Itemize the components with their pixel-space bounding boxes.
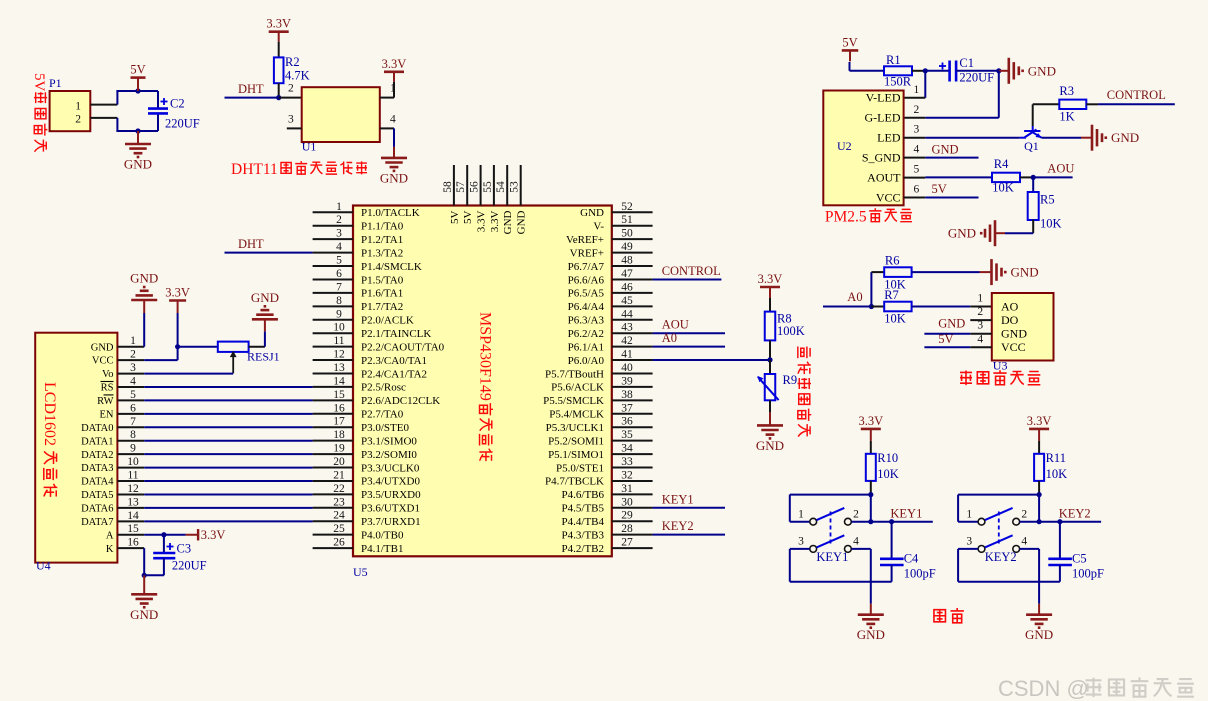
svg-text:46: 46 bbox=[621, 281, 633, 293]
svg-text:10K: 10K bbox=[877, 467, 899, 481]
U5 pin 27 P4.2/TB2 bbox=[612, 547, 653, 549]
U5 pin 16 P2.7/TA0 bbox=[313, 413, 353, 415]
svg-text:51: 51 bbox=[621, 214, 633, 226]
U3 pin 2 DO bbox=[970, 319, 992, 321]
svg-text:6: 6 bbox=[914, 184, 920, 196]
svg-text:26: 26 bbox=[333, 537, 345, 549]
U5 pin 21 P3.4/UTXD0 bbox=[313, 480, 353, 482]
svg-text:P1.4/SMCLK: P1.4/SMCLK bbox=[361, 261, 422, 273]
U4 pin 7 DATA0 bbox=[117, 426, 144, 428]
svg-text:45: 45 bbox=[621, 295, 633, 307]
svg-text:V-LED: V-LED bbox=[866, 91, 901, 105]
svg-text:GND: GND bbox=[130, 607, 158, 622]
svg-text:10K: 10K bbox=[884, 312, 906, 326]
svg-text:LED: LED bbox=[877, 131, 901, 145]
resistor R2 bbox=[274, 57, 284, 83]
U5 pin 8 P1.7/TA2 bbox=[313, 305, 353, 307]
wire U4 pin16 K down bbox=[143, 548, 145, 575]
svg-text:7: 7 bbox=[130, 416, 136, 428]
wire net KEY1 at U5 pin 30 bbox=[653, 507, 725, 509]
svg-text:100pF: 100pF bbox=[1072, 567, 1104, 581]
svg-text:GND: GND bbox=[91, 342, 114, 353]
ground below R9 bbox=[769, 412, 771, 425]
svg-text:GND: GND bbox=[580, 207, 604, 219]
svg-text:P1: P1 bbox=[49, 76, 62, 90]
svg-text:16: 16 bbox=[333, 402, 345, 414]
svg-text:U5: U5 bbox=[353, 565, 368, 579]
svg-text:DATA5: DATA5 bbox=[81, 490, 113, 501]
capacitor C2 bbox=[148, 107, 168, 110]
wire U2 pin6 VCC net bbox=[925, 197, 978, 199]
ground right of Q1 (sideways) bbox=[1081, 137, 1092, 139]
svg-text:P3.3/UCLK0: P3.3/UCLK0 bbox=[361, 462, 420, 474]
svg-text:P5.0/STE1: P5.0/STE1 bbox=[556, 462, 604, 474]
wire R4 to AOU node bbox=[1020, 176, 1033, 178]
power 3.3V above R11 bbox=[1029, 428, 1049, 431]
wire net CONTROL at U5 pin 47 bbox=[653, 278, 722, 280]
svg-text:GND: GND bbox=[124, 157, 152, 172]
wire KEY1 to ground bbox=[870, 582, 872, 604]
ground right of C1 (sideways) bbox=[999, 70, 1009, 72]
svg-text:P1.7/TA2: P1.7/TA2 bbox=[361, 301, 403, 313]
U5 pin 46 P6.5/A5 bbox=[612, 292, 653, 294]
svg-text:EN: EN bbox=[100, 409, 114, 420]
U4 pin 15 A bbox=[117, 534, 144, 536]
svg-text:DHT11: DHT11 bbox=[231, 161, 278, 178]
potentiometer RESJ1 bbox=[218, 342, 249, 352]
svg-text:GND: GND bbox=[1001, 327, 1027, 341]
connector P1 label 5V dianyuan jiekou (vertical red) bbox=[31, 73, 47, 152]
resistor R1 bbox=[884, 66, 912, 75]
svg-text:44: 44 bbox=[621, 308, 633, 320]
node C3 top junction bbox=[161, 532, 166, 537]
svg-text:GND: GND bbox=[857, 627, 885, 642]
U5 top pin 56 3.3V bbox=[480, 165, 482, 206]
svg-text:GND: GND bbox=[948, 226, 976, 241]
svg-text:6: 6 bbox=[336, 268, 342, 280]
svg-text:18: 18 bbox=[333, 429, 345, 441]
svg-text:29: 29 bbox=[621, 510, 633, 522]
U5 pin 50 VeREF+ bbox=[612, 238, 653, 240]
svg-text:GND: GND bbox=[130, 271, 158, 286]
wire R5 to ground rail bbox=[1032, 220, 1034, 234]
ground left of R5 (sideways) bbox=[995, 232, 1005, 234]
svg-text:14: 14 bbox=[127, 510, 139, 522]
power 3.3V above R10 bbox=[861, 428, 881, 431]
U4 pin 11 DATA4 bbox=[117, 480, 144, 482]
svg-text:R11: R11 bbox=[1046, 451, 1066, 465]
U4 pin 10 DATA3 bbox=[117, 467, 144, 469]
U5 pin 41 P6.0/A0 bbox=[612, 359, 653, 361]
svg-text:CONTROL: CONTROL bbox=[1107, 88, 1166, 102]
svg-text:P1.1/TA0: P1.1/TA0 bbox=[361, 221, 404, 233]
svg-text:P4.4/TB4: P4.4/TB4 bbox=[562, 516, 605, 528]
svg-text:220UF: 220UF bbox=[172, 559, 207, 573]
svg-text:DATA4: DATA4 bbox=[81, 477, 114, 488]
svg-text:C2: C2 bbox=[170, 97, 185, 111]
svg-text:3: 3 bbox=[130, 362, 136, 374]
svg-text:3.3V: 3.3V bbox=[476, 210, 488, 232]
svg-text:VREF+: VREF+ bbox=[570, 247, 604, 259]
wire DHT to U5 pin4 bbox=[225, 252, 313, 254]
node AOU junction bbox=[1031, 175, 1036, 180]
svg-text:P6.7/A7: P6.7/A7 bbox=[568, 261, 605, 273]
svg-text:1: 1 bbox=[75, 100, 81, 112]
U5 top pin 58 5V bbox=[453, 165, 455, 206]
U4 pin 3 Vo bbox=[117, 373, 144, 375]
resistor R8 bbox=[765, 312, 776, 341]
U5 pin 13 P2.4/CA1/TA2 bbox=[313, 372, 353, 374]
wire U3 pin4 5V net bbox=[924, 346, 970, 348]
svg-text:CONTROL: CONTROL bbox=[662, 264, 721, 278]
svg-text:C4: C4 bbox=[904, 552, 919, 566]
svg-text:13: 13 bbox=[127, 496, 139, 508]
sensor U3 body bbox=[992, 293, 1054, 361]
U5 pin 1 P1.0/TACLK bbox=[313, 211, 353, 213]
U5 top pin 55 3.3V bbox=[493, 165, 495, 206]
svg-text:A0: A0 bbox=[662, 331, 677, 345]
U5 pin 9 P2.0/ACLK bbox=[313, 319, 353, 321]
svg-text:100pF: 100pF bbox=[904, 567, 936, 581]
svg-text:P4.0/TB0: P4.0/TB0 bbox=[361, 529, 404, 541]
wire P1 to C2 loop bbox=[116, 91, 118, 105]
wire net A0 at U5 pin 42 bbox=[653, 346, 725, 348]
svg-text:10: 10 bbox=[127, 456, 139, 468]
resistor R5 bbox=[1032, 177, 1034, 192]
wire node to C1 bbox=[925, 70, 949, 72]
U3 pin 4 VCC bbox=[970, 346, 992, 348]
svg-text:KEY1: KEY1 bbox=[890, 506, 922, 520]
wire AOU net bbox=[1033, 176, 1072, 178]
U4 pin 5 RW bbox=[117, 399, 144, 401]
svg-text:2: 2 bbox=[1021, 509, 1027, 521]
svg-text:10: 10 bbox=[333, 322, 345, 334]
svg-text:GND: GND bbox=[932, 143, 959, 157]
U4 pin 14 DATA7 bbox=[117, 520, 144, 522]
svg-text:3: 3 bbox=[966, 536, 972, 548]
svg-text:LCD1602: LCD1602 bbox=[41, 382, 58, 446]
svg-text:DHT: DHT bbox=[238, 237, 264, 251]
svg-text:PM2.5: PM2.5 bbox=[825, 209, 867, 226]
svg-text:22: 22 bbox=[333, 483, 345, 495]
wire U1 pin4 to ground bbox=[393, 128, 395, 147]
wire to R8 bbox=[769, 298, 771, 312]
svg-text:20: 20 bbox=[333, 456, 345, 468]
svg-text:DATA6: DATA6 bbox=[81, 503, 113, 514]
svg-text:U4: U4 bbox=[36, 559, 51, 573]
svg-text:2: 2 bbox=[914, 104, 920, 116]
transistor Q1 bbox=[1020, 137, 1026, 139]
svg-text:P5.1/SIMO1: P5.1/SIMO1 bbox=[548, 449, 604, 461]
U5 pin 35 P5.2/SOMI1 bbox=[612, 440, 653, 442]
node KEY1 top junction bbox=[868, 492, 873, 497]
svg-text:DHT: DHT bbox=[238, 82, 264, 96]
svg-text:6: 6 bbox=[130, 402, 136, 414]
svg-text:19: 19 bbox=[333, 443, 345, 455]
svg-text:RS: RS bbox=[101, 383, 114, 394]
power 5V bbox=[131, 76, 146, 79]
svg-text:31: 31 bbox=[621, 483, 633, 495]
svg-text:GND: GND bbox=[1028, 63, 1056, 78]
wire R8 to node bbox=[769, 340, 771, 360]
svg-text:1: 1 bbox=[966, 509, 972, 521]
svg-text:GND: GND bbox=[516, 210, 528, 234]
svg-text:P3.0/STE0: P3.0/STE0 bbox=[361, 422, 409, 434]
U4 pin 12 DATA5 bbox=[117, 493, 144, 495]
svg-text:VeREF+: VeREF+ bbox=[566, 234, 604, 246]
U5 pin 24 P3.7/URXD1 bbox=[313, 520, 353, 522]
svg-text:53: 53 bbox=[509, 181, 521, 193]
svg-text:4: 4 bbox=[336, 241, 342, 253]
svg-text:RESJ1: RESJ1 bbox=[247, 350, 280, 364]
svg-text:11: 11 bbox=[127, 470, 138, 482]
svg-text:DO: DO bbox=[1001, 313, 1019, 327]
U5 pin 20 P3.3/UCLK0 bbox=[313, 467, 353, 469]
svg-text:10K: 10K bbox=[992, 181, 1014, 195]
svg-text:R7: R7 bbox=[884, 288, 899, 302]
svg-text:P1.3/TA2: P1.3/TA2 bbox=[361, 247, 403, 259]
ground below C2 bbox=[137, 131, 139, 144]
label smoke sensor (red) bbox=[960, 371, 972, 386]
svg-text:Vo: Vo bbox=[102, 369, 113, 380]
capacitor C4 bbox=[891, 522, 893, 559]
wire C1 to node2 bbox=[956, 70, 999, 72]
U2 pin 6 VCC bbox=[904, 197, 926, 199]
U4 pin 4 RS bbox=[117, 386, 144, 388]
svg-text:R3: R3 bbox=[1059, 84, 1074, 98]
power 3.3V above R2 bbox=[269, 30, 289, 33]
U5 pin 19 P3.2/SOMI0 bbox=[313, 453, 353, 455]
wire U5 pin41 to light sensor node bbox=[653, 359, 770, 361]
svg-text:10K: 10K bbox=[1046, 467, 1068, 481]
ground below LCD bbox=[143, 575, 145, 594]
svg-text:DATA2: DATA2 bbox=[81, 450, 113, 461]
svg-text:P3.6/UTXD1: P3.6/UTXD1 bbox=[361, 503, 420, 515]
svg-text:P1.2/TA1: P1.2/TA1 bbox=[361, 234, 403, 246]
svg-text:P6.1/A1: P6.1/A1 bbox=[568, 341, 604, 353]
svg-text:24: 24 bbox=[333, 510, 345, 522]
wire A0 net bbox=[823, 306, 871, 308]
svg-text:A: A bbox=[106, 530, 114, 541]
sensor U1 body bbox=[302, 87, 380, 142]
U2 pin 4 S_GND bbox=[904, 157, 926, 159]
RESJ1 wiper arrow bbox=[232, 353, 234, 373]
node C3 bottom junction bbox=[142, 573, 147, 578]
U4 pin 8 DATA1 bbox=[117, 440, 144, 442]
wire node to U2 pin1 bbox=[924, 71, 926, 98]
ground above U4 pin1 (flipped) bbox=[143, 313, 145, 347]
power 3.3V sideways at backlight bbox=[186, 534, 199, 536]
svg-text:GND: GND bbox=[380, 170, 408, 185]
svg-text:P5.2/SOMI1: P5.2/SOMI1 bbox=[548, 435, 604, 447]
node 5V junction bbox=[135, 88, 140, 93]
svg-text:DATA7: DATA7 bbox=[81, 517, 113, 528]
U1 pin 1 stub bbox=[380, 97, 394, 99]
wire U2 pin5 AOUT to R4 bbox=[925, 176, 992, 178]
svg-text:G-LED: G-LED bbox=[865, 111, 901, 125]
svg-text:17: 17 bbox=[333, 416, 345, 428]
svg-text:P3.5/URXD0: P3.5/URXD0 bbox=[361, 489, 421, 501]
svg-text:P5.7/TBoutH: P5.7/TBoutH bbox=[545, 368, 604, 380]
svg-text:CSDN @: CSDN @ bbox=[998, 676, 1089, 701]
svg-text:38: 38 bbox=[621, 389, 633, 401]
U5 pin 2 P1.1/TA0 bbox=[313, 225, 353, 227]
MCU U5 body bbox=[353, 206, 612, 557]
svg-text:37: 37 bbox=[621, 402, 633, 414]
svg-text:42: 42 bbox=[621, 335, 633, 347]
svg-text:2: 2 bbox=[336, 214, 342, 226]
svg-text:R4: R4 bbox=[994, 157, 1009, 171]
svg-text:MSP430F149: MSP430F149 bbox=[477, 312, 494, 401]
wire R3 to CONTROL bbox=[1086, 103, 1098, 105]
resistor R7 bbox=[884, 302, 911, 312]
svg-text:3: 3 bbox=[977, 320, 983, 332]
svg-text:48: 48 bbox=[621, 255, 633, 267]
svg-text:P2.5/Rosc: P2.5/Rosc bbox=[361, 382, 406, 394]
svg-text:5V: 5V bbox=[31, 73, 47, 92]
switch KEY1 contacts bbox=[810, 518, 817, 525]
svg-text:AOU: AOU bbox=[662, 318, 689, 332]
U5 pin 18 P3.1/SIMO0 bbox=[313, 440, 353, 442]
wire KEY1 lower loop bbox=[790, 548, 810, 550]
U5 pin 49 VREF+ bbox=[612, 252, 653, 254]
capacitor C1 bbox=[948, 61, 951, 82]
U5 pin 36 P5.3/UCLK1 bbox=[612, 426, 653, 428]
svg-text:3.3V: 3.3V bbox=[758, 272, 783, 286]
svg-text:5: 5 bbox=[130, 389, 136, 401]
svg-text:2: 2 bbox=[288, 83, 294, 95]
U5 title MSP430F149 (red vertical) bbox=[477, 312, 494, 461]
svg-text:P4.2/TB2: P4.2/TB2 bbox=[562, 543, 604, 555]
U5 pin 29 P4.4/TB4 bbox=[612, 520, 653, 522]
svg-text:3: 3 bbox=[336, 228, 342, 240]
wire Q1 up to R3 bbox=[1032, 104, 1034, 126]
U5 pin 7 P1.6/TA1 bbox=[313, 292, 353, 294]
photoresistor R9 bbox=[769, 360, 771, 374]
resistor R10 bbox=[870, 441, 872, 454]
svg-text:55: 55 bbox=[482, 181, 494, 193]
P1 pin 2 wire bbox=[90, 117, 117, 119]
svg-text:220UF: 220UF bbox=[959, 71, 994, 85]
connector P1 body bbox=[50, 91, 91, 131]
svg-text:4: 4 bbox=[853, 536, 859, 548]
U5 pin 5 P1.4/SMCLK bbox=[313, 265, 353, 267]
svg-text:R5: R5 bbox=[1040, 193, 1055, 207]
U5 pin 42 P6.1/A1 bbox=[612, 346, 653, 348]
svg-text:S_GND: S_GND bbox=[862, 150, 901, 164]
svg-text:U1: U1 bbox=[302, 140, 317, 154]
switch KEY1 actuator bbox=[817, 508, 845, 520]
svg-text:5: 5 bbox=[914, 164, 920, 176]
U5 pin 12 P2.3/CA0/TA1 bbox=[313, 359, 353, 361]
wire R6 to ground bbox=[912, 271, 980, 273]
U5 top pin 53 GND bbox=[520, 165, 522, 206]
wire R1 to node bbox=[912, 70, 925, 72]
wire 5V to R1 bbox=[849, 62, 851, 71]
svg-text:P6.0/A0: P6.0/A0 bbox=[568, 355, 605, 367]
ground right of R6 (sideways) bbox=[980, 271, 992, 273]
U5 pin 32 P4.7/TBCLK bbox=[612, 480, 653, 482]
svg-text:58: 58 bbox=[442, 181, 454, 193]
svg-text:P2.1/TAINCLK: P2.1/TAINCLK bbox=[361, 328, 431, 340]
label light sensor (red vertical) bbox=[798, 346, 812, 436]
U5 pin 10 P2.1/TAINCLK bbox=[313, 332, 353, 334]
svg-text:27: 27 bbox=[621, 537, 633, 549]
wire KEY1 pin2 to net bbox=[851, 521, 871, 523]
U4 pin 1 GND bbox=[117, 346, 144, 348]
wire R9 to ground bbox=[769, 400, 771, 412]
sensor U2 body bbox=[823, 91, 903, 206]
svg-text:23: 23 bbox=[333, 496, 345, 508]
power 5V above R1 bbox=[842, 49, 859, 52]
U5 pin 39 P5.6/ACLK bbox=[612, 386, 653, 388]
svg-text:Q1: Q1 bbox=[1024, 139, 1039, 153]
svg-text:DATA3: DATA3 bbox=[81, 463, 113, 474]
svg-text:2: 2 bbox=[75, 114, 81, 126]
wire node to R7 bbox=[871, 306, 884, 308]
U5 top pin 57 5V bbox=[466, 165, 468, 206]
wire DHT net bbox=[225, 97, 279, 99]
svg-text:15: 15 bbox=[333, 389, 345, 401]
U5 pin 11 P2.2/CAOUT/TA0 bbox=[313, 346, 353, 348]
svg-text:52: 52 bbox=[621, 201, 633, 213]
node KEY2 top junction bbox=[1037, 492, 1042, 497]
svg-text:10K: 10K bbox=[1040, 217, 1062, 231]
svg-text:P2.7/TA0: P2.7/TA0 bbox=[361, 409, 404, 421]
U5 pin 6 P1.5/TA0 bbox=[313, 278, 353, 280]
svg-text:P4.5/TB5: P4.5/TB5 bbox=[562, 503, 605, 515]
wire R2 to node bbox=[278, 83, 280, 97]
svg-text:AOUT: AOUT bbox=[867, 170, 901, 184]
wire KEY1 upper loop bbox=[790, 494, 871, 496]
svg-text:8: 8 bbox=[336, 295, 342, 307]
svg-text:5V: 5V bbox=[462, 210, 474, 224]
svg-text:3: 3 bbox=[798, 536, 804, 548]
U4 pin 2 VCC bbox=[117, 359, 144, 361]
svg-text:GND: GND bbox=[251, 290, 279, 305]
svg-text:P5.6/ACLK: P5.6/ACLK bbox=[551, 382, 604, 394]
svg-text:P6.2/A2: P6.2/A2 bbox=[568, 328, 604, 340]
svg-text:16: 16 bbox=[127, 537, 139, 549]
svg-text:4: 4 bbox=[1021, 536, 1027, 548]
svg-text:KEY1: KEY1 bbox=[662, 492, 694, 506]
U5 pin 37 P5.4/MCLK bbox=[612, 413, 653, 415]
wire node up to R6 bbox=[870, 272, 872, 306]
wire KEY2 to ground bbox=[1038, 582, 1040, 604]
svg-text:AOU: AOU bbox=[1047, 161, 1074, 175]
svg-text:47: 47 bbox=[621, 268, 633, 280]
svg-text:41: 41 bbox=[621, 349, 633, 361]
svg-text:RW: RW bbox=[97, 396, 113, 407]
wire U4 pin2 VCC to 3.3V bbox=[144, 359, 177, 361]
svg-text:25: 25 bbox=[333, 523, 345, 535]
svg-text:21: 21 bbox=[333, 469, 345, 481]
ground at U1 pin4 bbox=[393, 147, 395, 158]
svg-text:VCC: VCC bbox=[92, 356, 114, 367]
U5 pin 17 P3.0/STE0 bbox=[313, 426, 353, 428]
svg-text:P2.6/ADC12CLK: P2.6/ADC12CLK bbox=[361, 395, 440, 407]
wire U2 pin3 LED to Q1 bbox=[925, 137, 1020, 139]
U5 top pin 54 GND bbox=[506, 165, 508, 206]
power 3.3V above R8 bbox=[760, 286, 780, 289]
svg-text:P4.7/TBCLK: P4.7/TBCLK bbox=[545, 476, 604, 488]
svg-text:KEY2: KEY2 bbox=[985, 550, 1017, 564]
svg-text:P6.6/A6: P6.6/A6 bbox=[568, 274, 605, 286]
svg-text:43: 43 bbox=[621, 322, 633, 334]
svg-text:3.3V: 3.3V bbox=[858, 414, 883, 428]
svg-text:VCC: VCC bbox=[1001, 340, 1026, 354]
wire U3 pin3 GND net bbox=[924, 333, 970, 335]
